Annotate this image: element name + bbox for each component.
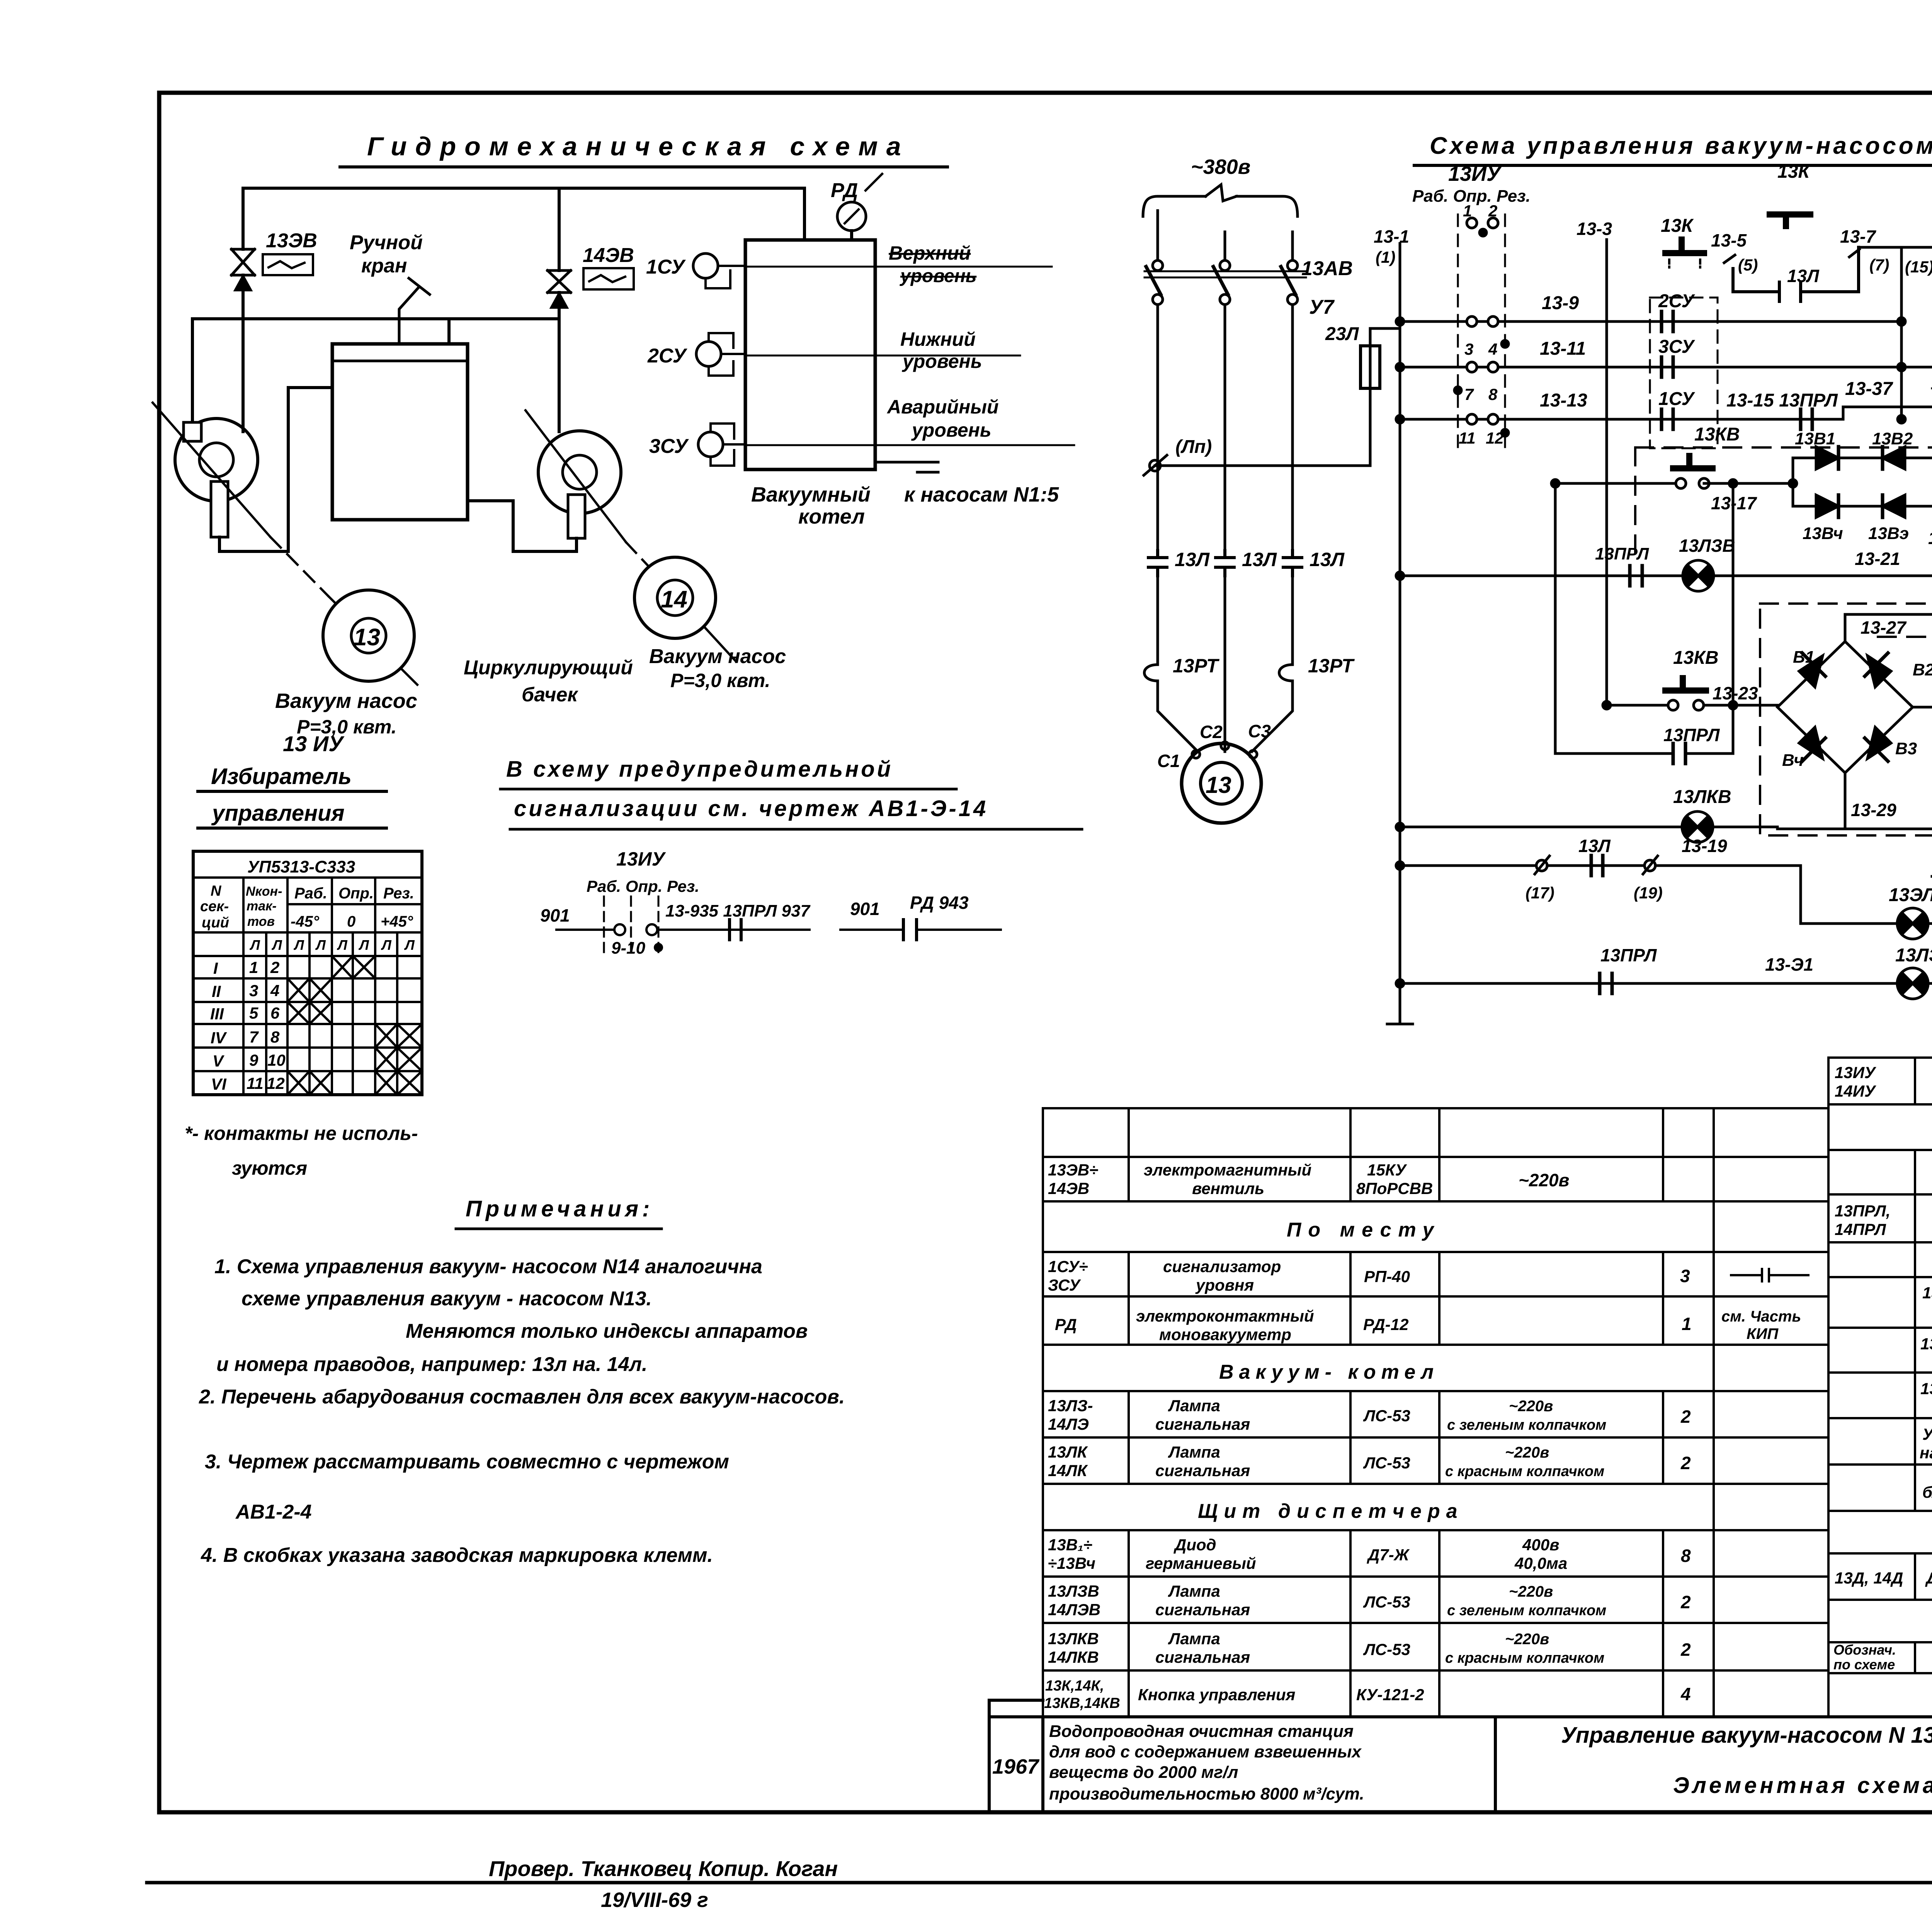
svg-text:2СУ: 2СУ — [647, 345, 687, 367]
svg-text:Схема управления вакуум-насо: Схема управления вакуум-насосом — [1430, 133, 1932, 159]
svg-text:РД: РД — [1055, 1315, 1077, 1334]
vacuum boiler — [745, 240, 875, 469]
supply bracket — [1143, 185, 1298, 216]
selector 13ИУ dashed poles — [1458, 214, 1505, 448]
svg-text:В3: В3 — [1895, 739, 1917, 758]
svg-text:По месту: По месту — [1287, 1219, 1440, 1241]
boiler outlet pipe — [875, 462, 938, 472]
svg-text:сигнальная: сигнальная — [1155, 1601, 1250, 1619]
svg-text:10: 10 — [267, 1051, 286, 1069]
svg-text:В схему предупредительной: В схему предупредительной — [506, 757, 893, 782]
svg-text:уровень: уровень — [900, 266, 976, 286]
svg-text:13: 13 — [1206, 772, 1231, 798]
wire to lamp 13ЭЛК — [1801, 922, 1932, 925]
svg-text:сигнальная: сигнальная — [1155, 1461, 1250, 1480]
svg-text:РП-40: РП-40 — [1364, 1267, 1410, 1286]
svg-text:IV: IV — [211, 1029, 227, 1047]
diode 13В2 — [1883, 447, 1905, 469]
svg-text:(7): (7) — [1869, 256, 1889, 274]
svg-text:13-21: 13-21 — [1855, 549, 1900, 569]
fuse 23Л — [1361, 328, 1400, 466]
svg-text:1: 1 — [249, 958, 258, 976]
svg-text:ЛС-53: ЛС-53 — [1363, 1454, 1410, 1472]
svg-text:13-29: 13-29 — [1851, 800, 1896, 820]
svg-text:3. Чертеж рассматривать со: 3. Чертеж рассматривать совместно с черт… — [205, 1451, 729, 1473]
diode bridge2 diamond — [1777, 641, 1913, 773]
thermal relay 13РТ phase C — [1279, 656, 1293, 692]
svg-text:13Л: 13Л — [1175, 549, 1210, 570]
svg-text:14ПРЛ: 14ПРЛ — [1835, 1220, 1886, 1238]
selector table УП5313-С333 — [193, 851, 422, 1095]
svg-text:Меняются только индексы апп: Меняются только индексы аппаратов — [406, 1320, 808, 1342]
contact 1СУ — [1662, 409, 1673, 429]
svg-text:Диод: Диод — [1173, 1536, 1216, 1554]
svg-text:13ЭВ÷: 13ЭВ÷ — [1048, 1161, 1098, 1179]
svg-text:РД: РД — [831, 179, 858, 202]
svg-text:Избиратель: Избиратель — [211, 764, 352, 789]
svg-text:-45°: -45° — [291, 913, 320, 930]
diode 13В3 — [1883, 495, 1905, 517]
circulating tank — [332, 344, 468, 520]
svg-text:ЛС-53: ЛС-53 — [1363, 1640, 1410, 1658]
svg-text:13К: 13К — [1661, 216, 1694, 236]
pipe pump13 to tank — [219, 388, 332, 551]
svg-text:АВ1-2-4: АВ1-2-4 — [235, 1501, 312, 1523]
svg-text:13ЛЗ-: 13ЛЗ- — [1048, 1397, 1093, 1415]
svg-text:4: 4 — [270, 981, 279, 1000]
svg-text:С2: С2 — [1200, 722, 1223, 742]
svg-text:для вод с содержанием взвешенн: для вод с содержанием взвешенных — [1049, 1742, 1362, 1761]
svg-text:моновакууметр: моновакууметр — [1159, 1325, 1291, 1344]
pipe riser valve 13ЭВ — [241, 188, 245, 432]
svg-text:Л: Л — [315, 937, 326, 953]
svg-text:13Л: 13Л — [1310, 549, 1345, 570]
svg-text:(19): (19) — [1634, 884, 1663, 902]
dashed box ЭО group — [1760, 604, 1932, 835]
contact 13ПРЛ on 13-Э1 — [1600, 973, 1612, 993]
lamp 13ЛЭ — [1897, 968, 1928, 999]
bracket 13-5 13-7 with contact 13Л — [1733, 247, 1859, 301]
phase wire C top — [1291, 232, 1294, 260]
svg-text:~220в: ~220в — [1519, 1170, 1569, 1190]
svg-text:котел: котел — [798, 505, 865, 528]
svg-text:Вакуум насос: Вакуум насос — [275, 689, 417, 713]
pipe pump14 to tank — [468, 501, 577, 551]
svg-text:с зеленым колпачком: с зеленым колпачком — [1447, 1417, 1606, 1433]
svg-text:(15): (15) — [1905, 258, 1932, 276]
svg-text:13ЭВ: 13ЭВ — [266, 230, 317, 252]
svg-text:14ЛК: 14ЛК — [1048, 1461, 1088, 1480]
lamp 13ЛЗВ — [1683, 560, 1714, 591]
svg-text:КИП: КИП — [1747, 1325, 1779, 1342]
wires converge to motor — [1158, 692, 1293, 752]
svg-text:Аварийный: Аварийный — [886, 396, 999, 418]
svg-text:электромагнитный: электромагнитный — [1144, 1161, 1311, 1179]
svg-text:Опр.: Опр. — [338, 885, 374, 902]
svg-text:12: 12 — [267, 1074, 285, 1092]
telephone node (17) — [1536, 860, 1547, 871]
svg-text:13КВ: 13КВ — [1673, 648, 1719, 668]
svg-text:уровень: уровень — [911, 419, 992, 441]
svg-text:Провер. Тканковец Копир. Кога: Провер. Тканковец Копир. Коган — [489, 1856, 838, 1881]
wire 13КВ lower — [1607, 704, 1777, 707]
svg-text:13ИУ: 13ИУ — [616, 848, 667, 870]
valve label box 14ЭВ — [583, 268, 634, 289]
svg-text:13Вч: 13Вч — [1803, 524, 1843, 543]
selector contacts row1 — [1467, 218, 1477, 228]
svg-text:1СУ: 1СУ — [646, 256, 686, 278]
svg-text:13ЛЗВ: 13ЛЗВ — [1048, 1582, 1099, 1600]
svg-text:уровня: уровня — [1195, 1276, 1254, 1294]
svg-text:(Лп): (Лп) — [1175, 437, 1212, 457]
svg-text:2: 2 — [270, 958, 279, 976]
telephone node (19) — [1645, 860, 1655, 871]
svg-text:13ИУ: 13ИУ — [1448, 162, 1502, 185]
diode В2 — [1867, 656, 1891, 687]
svg-text:сигнализации см. чертеж АВ1-: сигнализации см. чертеж АВ1-Э-14 — [514, 796, 988, 821]
button 13К first — [1665, 240, 1704, 253]
svg-text:13КВ: 13КВ — [1694, 424, 1740, 445]
phase wires to contactor — [1158, 304, 1293, 551]
svg-text:13ПРЛ: 13ПРЛ — [1595, 544, 1649, 563]
svg-text:9-10: 9-10 — [611, 939, 646, 958]
svg-text:~220в: ~220в — [1509, 1583, 1553, 1600]
svg-text:германиевый: германиевый — [1146, 1554, 1256, 1572]
svg-text:N: N — [211, 883, 222, 899]
contact 13ПРЛ mini — [730, 920, 741, 940]
svg-text:производительностью 8000 м³/су: производительностью 8000 м³/сут. — [1049, 1784, 1364, 1803]
svg-text:2: 2 — [1680, 1640, 1691, 1660]
svg-text:13В1: 13В1 — [1795, 429, 1835, 448]
svg-text:Двигатель насоса: Двигатель насоса — [1925, 1569, 1932, 1587]
svg-text:3: 3 — [1680, 1266, 1690, 1286]
bus 13-1 — [1387, 243, 1413, 1024]
svg-text:У7: У7 — [1309, 296, 1335, 318]
svg-text:12: 12 — [1486, 429, 1504, 447]
svg-text:ций: ций — [202, 915, 229, 931]
svg-text:сигнальная: сигнальная — [1155, 1415, 1250, 1433]
svg-text:13К,14К,: 13К,14К, — [1045, 1678, 1104, 1694]
svg-text:Вакуум- котел: Вакуум- котел — [1219, 1361, 1439, 1383]
contact 13ПРЛ on lamp wire — [1630, 566, 1642, 586]
svg-text:4: 4 — [1680, 1684, 1691, 1704]
lamp 13ЛКВ — [1682, 811, 1713, 842]
svg-text:3СУ: 3СУ — [649, 435, 689, 458]
pump 13 outlet nozzle — [211, 481, 228, 537]
svg-text:КУ-121-2: КУ-121-2 — [1356, 1686, 1424, 1704]
svg-text:и номера праводов, наприме: и номера праводов, например: 13л на. 14л… — [216, 1353, 647, 1376]
svg-text:13ЛКВ: 13ЛКВ — [1048, 1630, 1099, 1648]
cross marks row II — [287, 978, 332, 1002]
svg-text:сигнализатор: сигнализатор — [1163, 1257, 1281, 1276]
svg-text:2СУ: 2СУ — [1658, 291, 1696, 311]
svg-text:В2: В2 — [1913, 660, 1932, 679]
svg-text:13К: 13К — [1777, 162, 1811, 182]
svg-text:13Л,14Л- предохра-: 13Л,14Л- предохра- — [1922, 1284, 1932, 1302]
svg-text:~380в: ~380в — [1191, 155, 1250, 179]
svg-text:УП5313-С333: УП5313-С333 — [247, 857, 355, 876]
svg-text:13КВ,14КВ: 13КВ,14КВ — [1044, 1695, 1120, 1711]
svg-text:9: 9 — [249, 1051, 259, 1069]
svg-text:13РТ: 13РТ — [1308, 655, 1355, 677]
svg-text:Вакуум насос: Вакуум насос — [649, 645, 786, 668]
svg-text:I: I — [213, 959, 218, 977]
pipe inlet left pump — [191, 319, 194, 423]
pump 13 shaft line — [153, 403, 270, 537]
svg-text:13-5: 13-5 — [1711, 230, 1747, 250]
svg-text:13Л: 13Л — [1242, 549, 1277, 570]
svg-text:Водопроводная очистная станц: Водопроводная очистная станция — [1049, 1722, 1354, 1741]
svg-text:Ручной: Ручной — [350, 231, 423, 254]
svg-text:13: 13 — [354, 624, 380, 651]
svg-text:Кнопка управления: Кнопка управления — [1138, 1686, 1295, 1704]
svg-text:управления: управления — [211, 801, 345, 826]
svg-text:19/VIII-69 г: 19/VIII-69 г — [601, 1888, 708, 1912]
svg-text:В1: В1 — [1793, 648, 1815, 667]
svg-text:так-: так- — [247, 899, 277, 913]
seal loop with contact 13ПРЛ — [1555, 483, 1733, 754]
svg-text:1СУ÷: 1СУ÷ — [1048, 1257, 1088, 1276]
mini РД circuit — [840, 929, 1001, 931]
svg-text:1СУ: 1СУ — [1658, 389, 1696, 409]
boiler gauge РД — [850, 231, 853, 240]
svg-text:с красным колпачком: с красным колпачком — [1445, 1650, 1604, 1666]
pump 14 shaft line — [526, 410, 626, 542]
svg-text:13Л: 13Л — [1578, 836, 1611, 856]
svg-text:+45°: +45° — [381, 913, 413, 930]
diode 13В4 — [1816, 495, 1838, 517]
svg-text:схеме управления вакуум -: схеме управления вакуум - насосом N13. — [241, 1288, 652, 1310]
pump 14 outlet nozzle — [568, 495, 585, 538]
level switch 1СУ — [693, 253, 718, 278]
bridge2 top to wire IV — [1845, 614, 1932, 665]
svg-text:8: 8 — [270, 1028, 280, 1046]
svg-text:Л: Л — [271, 937, 282, 953]
svg-text:901: 901 — [850, 899, 880, 919]
svg-text:14ЭВ: 14ЭВ — [1048, 1179, 1089, 1197]
cross marks row V — [375, 1048, 422, 1071]
svg-text:~220в: ~220в — [1509, 1398, 1553, 1415]
svg-text:на блоке управления:: на блоке управления: — [1920, 1444, 1932, 1462]
svg-text:3: 3 — [1464, 340, 1473, 358]
svg-text:Л: Л — [358, 937, 369, 953]
svg-text:кран: кран — [361, 255, 407, 277]
svg-text:3СУ: 3СУ — [1658, 337, 1696, 357]
svg-text:Лампа: Лампа — [1168, 1630, 1220, 1648]
svg-text:2: 2 — [1680, 1592, 1691, 1612]
svg-text:13Вэ: 13Вэ — [1868, 524, 1909, 543]
svg-text:V: V — [213, 1052, 224, 1070]
motor 13 — [1182, 743, 1261, 823]
button 13КВ upper — [1673, 456, 1713, 468]
wire top 0 — [1859, 246, 1932, 249]
wire 13-11 — [1400, 366, 1932, 369]
svg-text:13-Э1: 13-Э1 — [1765, 954, 1813, 975]
svg-text:13-17: 13-17 — [1711, 493, 1757, 513]
svg-text:~220в: ~220в — [1505, 1444, 1549, 1461]
svg-text:8ПоРСВВ: 8ПоРСВВ — [1356, 1179, 1433, 1197]
wire 13-13 — [1400, 418, 1843, 421]
vertical 13-3 — [1605, 240, 1608, 705]
svg-text:13Д, 14Д: 13Д, 14Д — [1835, 1569, 1903, 1587]
svg-text:2. Перечень абарудования сос: 2. Перечень абарудования составлен для в… — [199, 1386, 845, 1408]
svg-text:13РТ: 13РТ — [1173, 655, 1220, 677]
diode В3 — [1867, 727, 1891, 759]
level line lower — [745, 355, 1020, 357]
thermal relay 13РТ phase A — [1145, 656, 1158, 692]
svg-text:14ЭВ: 14ЭВ — [583, 244, 634, 267]
svg-text:ЗСУ: ЗСУ — [1048, 1276, 1082, 1294]
svg-text:уровень: уровень — [901, 350, 982, 372]
left half grid — [1043, 1108, 1828, 1717]
svg-text:Циркулирующий: Циркулирующий — [464, 657, 633, 679]
svg-text:зуются: зуются — [232, 1157, 307, 1179]
level line emergency — [745, 444, 1074, 446]
svg-text:электроконтактный: электроконтактный — [1136, 1307, 1314, 1325]
svg-text:Раб.: Раб. — [294, 885, 327, 902]
svg-text:см. Часть: см. Часть — [1721, 1308, 1801, 1325]
contact 13ПРЛ on wire 13-13 — [1801, 409, 1812, 429]
svg-text:1967: 1967 — [992, 1755, 1040, 1778]
svg-text:13-27: 13-27 — [1861, 617, 1907, 638]
svg-text:8: 8 — [1488, 385, 1498, 403]
svg-text:8: 8 — [1681, 1546, 1691, 1566]
svg-text:вентиль: вентиль — [1192, 1179, 1264, 1197]
svg-text:13Л: 13Л — [1787, 266, 1820, 286]
svg-text:С1: С1 — [1157, 751, 1180, 771]
svg-text:13-23: 13-23 — [1713, 683, 1758, 703]
svg-text:13-13: 13-13 — [1540, 390, 1587, 411]
svg-text:4. В скобках указана завод: 4. В скобках указана заводская маркировк… — [201, 1544, 713, 1567]
button 13КВ lower — [1665, 678, 1706, 691]
dashed box СУ contacts — [1650, 298, 1718, 448]
pump 13 inlet nozzle — [184, 422, 201, 441]
svg-text:13-15 13ПРЛ: 13-15 13ПРЛ — [1726, 390, 1838, 411]
svg-text:Лампа: Лампа — [1168, 1582, 1220, 1600]
svg-text:13В₁÷: 13В₁÷ — [1048, 1536, 1092, 1554]
cross marks row I — [287, 956, 422, 1095]
svg-text:тов: тов — [247, 914, 275, 929]
pipe step to tank top — [447, 319, 451, 344]
wire 13КВ upper — [1555, 482, 1793, 485]
svg-text:14ЛКВ: 14ЛКВ — [1048, 1648, 1099, 1666]
svg-text:4: 4 — [1488, 340, 1497, 358]
svg-text:сек-: сек- — [200, 898, 229, 915]
svg-text:(17): (17) — [1526, 884, 1554, 902]
svg-text:14ЛЭВ: 14ЛЭВ — [1048, 1601, 1100, 1619]
lamp 13ЭЛК — [1897, 908, 1928, 939]
svg-text:бачек: бачек — [522, 684, 578, 706]
diode bridge1 rectangle — [1793, 458, 1932, 506]
svg-text:веществ до 2000 мг/л: веществ до 2000 мг/л — [1049, 1763, 1238, 1782]
diode В1 — [1799, 656, 1823, 687]
svg-text:VI: VI — [211, 1075, 227, 1093]
svg-text:14ЛЭ: 14ЛЭ — [1048, 1415, 1089, 1433]
svg-text:Л: Л — [381, 937, 392, 953]
svg-text:13В2: 13В2 — [1872, 429, 1913, 448]
svg-text:23Л: 23Л — [1325, 324, 1359, 344]
svg-text:13-935 13ПРЛ 937: 13-935 13ПРЛ 937 — [665, 902, 811, 920]
svg-text:Вакуумный: Вакуумный — [751, 483, 871, 506]
svg-text:400в: 400в — [1522, 1536, 1559, 1554]
contact 13Л aux — [1591, 856, 1603, 876]
svg-text:13-3: 13-3 — [1577, 219, 1612, 239]
svg-text:13ЛЗВ: 13ЛЗВ — [1679, 536, 1735, 556]
diode В4 — [1799, 727, 1823, 759]
level line upper — [745, 266, 1052, 268]
svg-text:Нижний: Нижний — [900, 328, 976, 350]
contact 2СУ — [1662, 311, 1673, 332]
svg-text:Nкон-: Nкон- — [246, 884, 282, 899]
svg-text:Р=3,0 квт.: Р=3,0 квт. — [670, 670, 770, 691]
svg-text:11: 11 — [247, 1074, 264, 1092]
svg-text:Примечания:: Примечания: — [466, 1196, 653, 1221]
svg-text:÷13Вч: ÷13Вч — [1048, 1554, 1095, 1572]
svg-text:Гидромеханическая схема: Гидромеханическая схема — [367, 132, 910, 161]
svg-text:с красным колпачком: с красным колпачком — [1445, 1463, 1604, 1480]
equipment list table — [1043, 1058, 1932, 1717]
project description — [1049, 1722, 1364, 1803]
svg-text:(5): (5) — [1738, 256, 1758, 274]
svg-text:блок управления: блок управления — [1922, 1483, 1932, 1501]
svg-text:901: 901 — [540, 905, 570, 925]
diode 13В1 — [1816, 447, 1838, 469]
svg-text:13-37: 13-37 — [1845, 379, 1893, 399]
svg-text:Рез.: Рез. — [383, 885, 414, 902]
pump circle 14 — [634, 557, 716, 638]
svg-text:III: III — [210, 1005, 224, 1023]
phase wire B top — [1224, 232, 1226, 260]
wire Лп to fuse — [1155, 464, 1370, 467]
svg-text:13РТ, 14РТ-тепловое: 13РТ, 14РТ-тепловое — [1920, 1335, 1932, 1353]
svg-text:13ЛК: 13ЛК — [1048, 1443, 1088, 1461]
svg-text:6: 6 — [270, 1004, 280, 1022]
svg-text:13АВ: 13АВ — [1301, 257, 1353, 280]
svg-text:2: 2 — [1680, 1407, 1691, 1427]
svg-text:5: 5 — [249, 1004, 259, 1022]
cross marks row III — [287, 1002, 332, 1024]
hand valve Ручной кран — [399, 278, 430, 344]
wire 13-Э1 — [1400, 982, 1932, 985]
bridge2 right to section V — [1913, 707, 1932, 711]
wire 13-9 — [1400, 320, 1901, 323]
wire VI — [1777, 828, 1932, 830]
svg-text:сигнальная: сигнальная — [1155, 1648, 1250, 1666]
pipe middle horizontal — [192, 317, 559, 320]
svg-text:14: 14 — [661, 586, 687, 613]
contactor contacts 13Л power — [1148, 551, 1167, 576]
wire 13-19 — [1400, 866, 1801, 924]
svg-text:13ПРЛ,: 13ПРЛ, — [1835, 1202, 1890, 1220]
valve 14ЭВ — [548, 270, 571, 293]
contact 3СУ — [1662, 357, 1673, 377]
valve 13ЭВ — [231, 249, 255, 275]
svg-text:~220в: ~220в — [1505, 1631, 1549, 1648]
svg-text:Д7-Ж: Д7-Ж — [1367, 1546, 1410, 1564]
svg-text:Элементная схема: Элементная схема — [1673, 1773, 1932, 1798]
lamp wire 13-21 — [1400, 575, 1932, 577]
svg-text:Обознач.: Обознач. — [1833, 1642, 1896, 1658]
svg-text:13ПРЛ: 13ПРЛ — [1663, 725, 1720, 745]
svg-text:13АВ,14АВ- расцепи-: 13АВ,14АВ- расцепи- — [1920, 1379, 1932, 1398]
svg-text:РД 943: РД 943 — [910, 893, 969, 913]
bus 15 — [1900, 247, 1903, 419]
phase wire A top — [1156, 211, 1159, 260]
button 13К second — [1770, 214, 1810, 226]
svg-text:Вч: Вч — [1782, 751, 1804, 770]
svg-text:С3: С3 — [1248, 721, 1271, 741]
svg-text:13ПРЛ: 13ПРЛ — [1600, 945, 1657, 965]
